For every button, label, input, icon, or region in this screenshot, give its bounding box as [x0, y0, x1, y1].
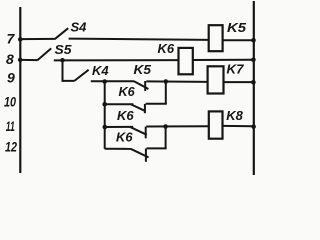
svg-text:S4: S4 [71, 19, 88, 34]
relay coil K7 [208, 66, 224, 93]
wire: node 8 rail to switch S5 [20, 59, 37, 61]
wire: branch down from S5 rung to K4 [63, 60, 75, 81]
right bus rail [253, 1, 255, 175]
svg-text:K5: K5 [134, 62, 152, 77]
contact K4 blade (make contact) [74, 70, 88, 81]
relay coil K6 [179, 48, 193, 74]
svg-text:12: 12 [5, 139, 17, 155]
junction right rail coil K8 [251, 124, 256, 129]
wire: K4 to contact K5 [91, 80, 134, 82]
svg-text:7: 7 [7, 31, 16, 47]
svg-text:8: 8 [6, 51, 14, 67]
wire: right branch vertical lower [165, 126, 167, 148]
wire: left branch vertical [104, 81, 106, 148]
wire: coil K8 to right rail [223, 125, 254, 127]
relay coil K5 [209, 25, 223, 51]
wire: rung to contact K6b [105, 126, 133, 128]
svg-text:S5: S5 [55, 42, 73, 57]
junction on left rail node 8 [18, 58, 23, 63]
svg-text:10: 10 [4, 94, 16, 110]
svg-text:K4: K4 [92, 63, 109, 78]
svg-text:K6: K6 [116, 129, 133, 144]
svg-text:K6: K6 [158, 41, 175, 56]
junction K8 rung left [103, 125, 108, 130]
wire: coil K5 to right rail [223, 39, 253, 41]
junction K4 rung right [164, 79, 169, 84]
switch S4 blade (make contact) [55, 28, 69, 39]
left bus rail [19, 7, 21, 173]
wire: node 7 rail to switch S4 [20, 38, 55, 40]
contact K6c blade (break contact) [131, 149, 148, 157]
svg-text:K6: K6 [119, 84, 136, 99]
contact K5 blade (break contact) [134, 81, 148, 89]
relay coil K8 [209, 111, 223, 138]
junction on left rail node 7 [18, 37, 23, 42]
svg-text:11: 11 [6, 118, 15, 134]
junction right rail coil K5 [251, 38, 256, 43]
contact K6b blade (break contact) [130, 127, 147, 135]
wire: contact K6a to right branch [146, 103, 167, 105]
wire: S5 to coil K6 [54, 59, 179, 61]
junction right rail coil K7 [251, 80, 256, 85]
wire: coil K6 to right rail [193, 59, 253, 61]
contact K6b stop tick [145, 127, 147, 139]
svg-text:K5: K5 [227, 20, 247, 35]
contact K6a stop tick [144, 104, 146, 113]
junction K4 rung left [102, 79, 107, 84]
wire: contact K6b to coil K8 [146, 125, 209, 127]
wire: coil K7 to right rail [224, 81, 254, 83]
svg-text:K6: K6 [117, 108, 134, 123]
svg-text:9: 9 [7, 70, 15, 86]
wire: rung to contact K6c [105, 148, 132, 150]
switch S5 blade (make contact) [37, 48, 51, 60]
contact K6c stop tick [145, 149, 147, 162]
svg-text:K7: K7 [227, 61, 245, 76]
junction S5 rung branch [60, 58, 65, 63]
wire: right branch vertical upper [165, 81, 167, 104]
junction K6a rung left [102, 102, 107, 107]
contact K5 stop tick [144, 81, 146, 91]
junction right rail coil K6 [251, 58, 256, 63]
contact K6a blade (break contact) [131, 104, 146, 111]
wire: contact K5 to coil K7 [146, 80, 207, 83]
wire: S4 to coil K5 [69, 39, 209, 40]
wire: rung to contact K6a [105, 103, 134, 105]
wire: contact K6c to right branch [146, 147, 166, 149]
junction K8 rung right branch [163, 124, 168, 129]
svg-text:K8: K8 [226, 108, 243, 123]
